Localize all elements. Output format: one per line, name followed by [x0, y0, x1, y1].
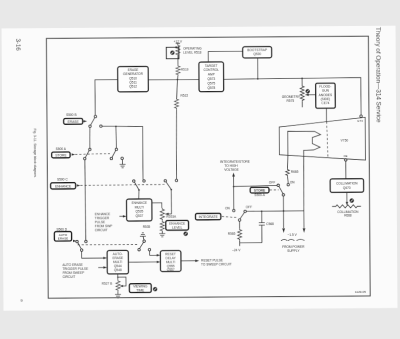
svg-text:R519: R519: [181, 68, 189, 72]
svg-text:OFF: OFF: [269, 181, 275, 185]
svg-text:R553A: R553A: [166, 215, 177, 219]
svg-text:R668: R668: [344, 214, 352, 218]
wire flood gun to CRT: [325, 108, 327, 121]
svg-text:LEVEL: LEVEL: [172, 226, 182, 230]
resistor R565: [228, 228, 242, 240]
gang dashes store row: [72, 153, 110, 156]
label reset pulse to sweep circuit: [201, 258, 232, 266]
svg-text:R535: R535: [143, 225, 151, 229]
wire pole1 to auto erase multi: [82, 251, 107, 259]
main target rail to CRT: [224, 78, 361, 117]
integrate node line to high voltage: [232, 173, 235, 210]
svg-text:CE: CE: [344, 154, 348, 158]
CRT V750 envelope: [279, 117, 365, 160]
reset delay multi Q555 Q557: [160, 251, 181, 272]
front-panel control ENHANCE LEVEL: [166, 220, 189, 230]
svg-text:SUPPLY: SUPPLY: [287, 249, 300, 253]
svg-text:Theory of Operation—314 Servic: Theory of Operation—314 Service: [374, 27, 382, 123]
svg-text:S500 C: S500 C: [57, 178, 68, 182]
inverted ground above S500D pole2: [140, 233, 146, 240]
svg-text:LEVEL R518: LEVEL R518: [183, 50, 202, 54]
power rail (floating target rail): [246, 210, 304, 213]
gang dashes store switch: [270, 189, 279, 191]
erase generator Q510 Q511 Q512: [118, 66, 149, 91]
svg-text:TO SWEEP CIRCUIT: TO SWEEP CIRCUIT: [201, 262, 232, 266]
wire CE to collimation: [345, 161, 347, 179]
store bus rail: [102, 126, 143, 180]
wire junction down to store pole2: [115, 126, 117, 148]
push button ERASE: [64, 118, 83, 124]
svg-text:CIRCUIT: CIRCUIT: [95, 228, 108, 232]
svg-text:Q512: Q512: [129, 84, 137, 88]
capacitor C568: [259, 211, 274, 243]
ground R527B: [115, 291, 121, 298]
switch S500C pole A: [133, 180, 146, 191]
label FROM POWER SUPPLY: [282, 245, 305, 253]
switch S500B erase: [89, 115, 102, 127]
svg-text:Q530: Q530: [253, 52, 261, 56]
knob geometry adjust: [305, 89, 309, 93]
gang dashes enhance row: [77, 184, 165, 187]
potentiometer R518 operating level: [176, 44, 180, 56]
wire mesh to integrate rail: [303, 155, 306, 211]
node +12V: [174, 39, 183, 44]
svg-text:ERASE: ERASE: [68, 120, 80, 124]
svg-text:C568: C568: [266, 222, 274, 226]
wire pole A to enhance multi: [138, 190, 140, 199]
switch integrate ON/OFF: [233, 209, 247, 221]
svg-text:ERASE: ERASE: [58, 237, 69, 241]
front-panel label INTEGRATE: [195, 213, 220, 220]
target control amp Q573 Q575 Q578: [199, 62, 224, 92]
resistor R519: [176, 65, 189, 76]
braces from power supply: [281, 239, 305, 240]
auto erase multi Q544 Q548: [107, 250, 128, 274]
junction node to store switch: [233, 186, 235, 188]
front-panel label STORE S500-A: [250, 187, 269, 197]
collimation Q670: [330, 179, 364, 193]
push button ENHANCE: [51, 183, 76, 189]
terminal CE on CRT: [344, 154, 348, 161]
wire mesh down to R665: [286, 155, 289, 169]
wire node to OFF contact of S500-A: [234, 185, 278, 186]
gang dashes erase button: [83, 120, 87, 122]
front-panel control VIEWING TIME: [129, 284, 151, 293]
wire bootstrap output down to rail: [257, 58, 259, 79]
enhance multi Q535 Q537: [127, 199, 152, 221]
label INTEGRATE/STORE TO HIGH VOLTAGE: [220, 160, 250, 173]
junction bootstrap/rail: [257, 78, 259, 80]
svg-text:INTEGRATE: INTEGRATE: [199, 215, 219, 219]
svg-text:CE74: CE74: [321, 101, 329, 105]
wire auto erase multi to R527B: [117, 274, 119, 280]
wire R522 down to enhance switch contact: [175, 109, 178, 179]
storage target mesh outline: [288, 131, 321, 155]
wire erase common down to store contact: [89, 127, 91, 148]
wire R519 to node: [177, 76, 179, 80]
svg-text:S500 A: S500 A: [56, 147, 67, 151]
svg-text:R565: R565: [228, 232, 236, 236]
resistor R535: [143, 221, 165, 232]
power supply feed lines -1.5V: [282, 211, 305, 233]
svg-text:Q670: Q670: [343, 186, 351, 190]
label enhance trigger pulse: [95, 212, 113, 232]
wire erase gen output to target amp: [148, 78, 199, 80]
switch S500D pole2: [138, 240, 151, 251]
svg-text:R527 B: R527 B: [102, 281, 113, 285]
potentiometer R527-B viewing time: [102, 276, 127, 291]
ground R535: [159, 232, 165, 237]
wire node down to R522: [176, 80, 179, 98]
switch S500A pole1: [83, 148, 91, 160]
switch S500A pole2 with ground: [110, 148, 123, 160]
label OPERATING LEVEL R518: [183, 47, 202, 55]
bootstrap Q530: [243, 47, 272, 58]
svg-text:S500 D: S500 D: [56, 227, 67, 231]
wire trigger into auto erase multi: [98, 266, 107, 269]
front-panel control OPERATING LEVEL (knob box): [166, 46, 179, 59]
potentiometer R668 collimation (horizontal): [332, 205, 361, 208]
knob collimation adjust: [350, 198, 354, 202]
svg-text:ENHANCE: ENHANCE: [55, 184, 72, 188]
wire collimation to R668 wiper: [346, 192, 349, 205]
potentiometer R575 geometry: [300, 78, 304, 107]
switch S500-A store (ON/OFF): [277, 183, 289, 196]
resistor R665: [286, 169, 299, 176]
svg-text:GT4: GT4: [357, 119, 363, 123]
wire enhance multi output to R553A: [152, 203, 162, 208]
svg-text:S500 B: S500 B: [66, 113, 76, 117]
push button AUTO ERASE: [54, 232, 71, 242]
label GEOMETRY R575: [282, 95, 301, 103]
wire target amp top to bootstrap input: [208, 51, 243, 62]
wire erase gen input from switch: [95, 80, 118, 118]
switch S500C pole B: [164, 179, 178, 190]
wire -24V rail: [240, 240, 262, 246]
wiper wire geometry to flood gun box: [305, 93, 316, 96]
wire pole2 to reset delay: [150, 251, 161, 257]
wire pot to R519: [177, 56, 179, 65]
wire trigger into enhance multi: [119, 215, 126, 218]
terminal GT4 on CRT: [357, 115, 363, 123]
svg-text:VOLTAGE: VOLTAGE: [224, 168, 239, 172]
knob enhance level: [183, 232, 187, 236]
knob viewing time: [153, 287, 157, 291]
wire R565 from integrate common: [239, 221, 241, 228]
svg-text:Fig. 3-11. Storage block diagr: Fig. 3-11. Storage block diagram.: [33, 128, 37, 177]
junction geometry/rail: [301, 77, 303, 79]
svg-text:STORE: STORE: [55, 153, 67, 157]
junction store bus: [115, 125, 117, 127]
flood gun mesh (dashed) inside CRT: [327, 122, 328, 158]
svg-text:Q578: Q578: [207, 86, 215, 90]
gang dashes integrate: [222, 216, 238, 217]
gang dashes auto erase row: [73, 239, 139, 245]
potentiometer R553A: [160, 208, 177, 221]
wire switch common down to rail: [282, 196, 284, 211]
svg-text:+12 V: +12 V: [174, 39, 183, 43]
svg-text:Q548: Q548: [114, 268, 122, 272]
wire pole B down to R553A wiper: [170, 190, 172, 214]
svg-text:ON: ON: [290, 180, 296, 184]
svg-text:3-16: 3-16: [14, 39, 20, 52]
svg-text:R575: R575: [287, 99, 295, 103]
svg-text:STORE: STORE: [254, 189, 266, 193]
label COLLIMATION R668: [337, 210, 359, 218]
node junction erase-gen / target amp: [177, 79, 179, 81]
junction C568: [261, 210, 263, 212]
diagram border frame: [46, 36, 370, 298]
resistor R522: [174, 94, 188, 110]
label auto erase trigger pulse: [62, 263, 88, 279]
svg-text:ON: ON: [225, 206, 231, 210]
wire auto erase multi to reset delay: [128, 261, 160, 264]
svg-text:TIME: TIME: [136, 288, 145, 292]
svg-text:Q557: Q557: [167, 268, 175, 272]
svg-text:~1.5 V: ~1.5 V: [287, 233, 297, 237]
svg-text:–24 V: –24 V: [232, 248, 241, 252]
ground store pole2: [120, 159, 126, 167]
svg-text:1129-05: 1129-05: [355, 290, 366, 294]
wire R665 to ON contact: [287, 176, 290, 183]
svg-text:R522: R522: [180, 94, 188, 98]
svg-text:R665: R665: [291, 170, 299, 174]
svg-text:V750: V750: [341, 139, 349, 143]
svg-text:CIRCUIT: CIRCUIT: [62, 275, 75, 279]
flood gun anodes CE74 box: [316, 83, 336, 108]
push button STORE: [52, 152, 70, 158]
switch S500D pole1: [76, 240, 87, 251]
wire store pole1 common down to auto erase row: [84, 160, 87, 241]
svg-text:OFF: OFF: [246, 205, 252, 209]
wire reset pulse output: [181, 259, 199, 262]
svg-text:Q537: Q537: [135, 214, 143, 218]
junction store switch/power: [283, 210, 285, 212]
svg-text:S500-A: S500-A: [254, 193, 266, 197]
